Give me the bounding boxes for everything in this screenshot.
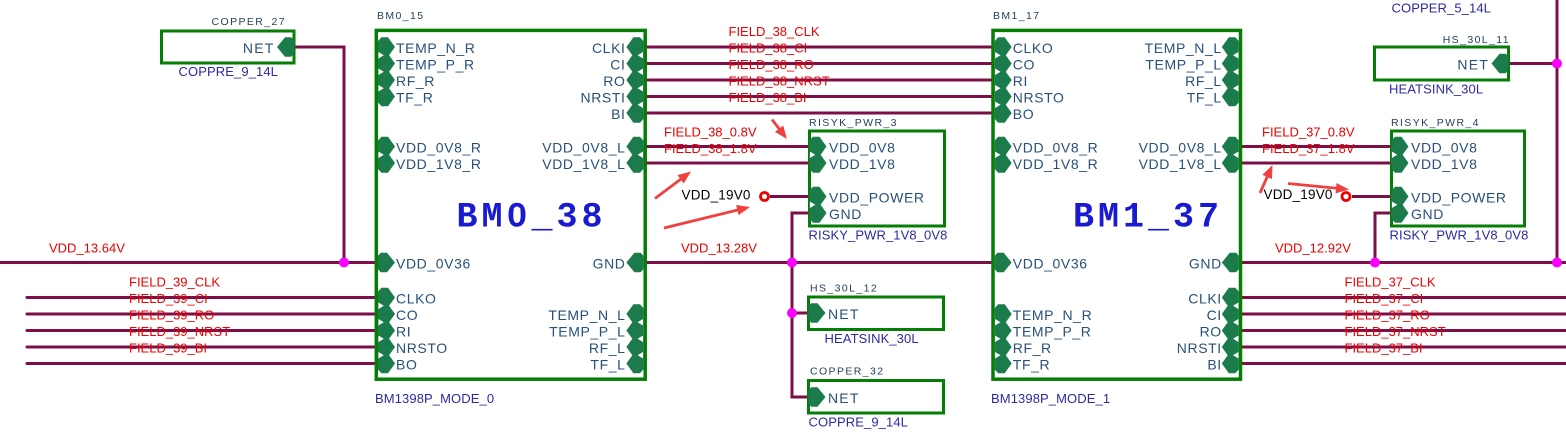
svg-text:FIELD_39_BI: FIELD_39_BI bbox=[129, 341, 207, 356]
svg-text:VDD_0V36: VDD_0V36 bbox=[1013, 256, 1088, 272]
svg-text:COPPER_27: COPPER_27 bbox=[212, 16, 286, 28]
svg-text:FIELD_39_CI: FIELD_39_CI bbox=[129, 291, 208, 306]
svg-text:NET: NET bbox=[243, 40, 275, 56]
svg-text:CLKI: CLKI bbox=[592, 40, 626, 56]
svg-text:TEMP_P_L: TEMP_P_L bbox=[1145, 57, 1221, 73]
svg-text:VDD_0V8_R: VDD_0V8_R bbox=[396, 140, 482, 156]
svg-text:RISYK_PWR_4: RISYK_PWR_4 bbox=[1391, 117, 1480, 129]
svg-text:COPPER_32: COPPER_32 bbox=[810, 366, 884, 378]
svg-text:TEMP_P_R: TEMP_P_R bbox=[396, 57, 475, 73]
svg-text:TF_L: TF_L bbox=[590, 357, 625, 373]
svg-text:NRSTO: NRSTO bbox=[396, 340, 448, 356]
svg-text:COPPRE_9_14L: COPPRE_9_14L bbox=[179, 64, 278, 79]
svg-text:VDD_0V8: VDD_0V8 bbox=[829, 140, 895, 156]
svg-text:GND: GND bbox=[1411, 206, 1444, 222]
svg-text:FIELD_39_NRST: FIELD_39_NRST bbox=[129, 324, 230, 339]
svg-text:CI: CI bbox=[610, 57, 625, 73]
svg-text:COPPER_5_14L: COPPER_5_14L bbox=[1392, 1, 1491, 16]
svg-text:TF_L: TF_L bbox=[1187, 90, 1222, 106]
svg-text:FIELD_38_BI: FIELD_38_BI bbox=[729, 90, 807, 105]
svg-text:VDD_0V8_L: VDD_0V8_L bbox=[542, 140, 625, 156]
svg-text:VDD_19V0: VDD_19V0 bbox=[682, 188, 751, 203]
svg-text:BM0_38: BM0_38 bbox=[457, 198, 607, 238]
svg-text:CO: CO bbox=[1013, 57, 1035, 73]
svg-text:VDD_1V8_L: VDD_1V8_L bbox=[1139, 156, 1222, 172]
svg-text:CO: CO bbox=[396, 307, 418, 323]
svg-text:BO: BO bbox=[396, 357, 417, 373]
svg-text:FIELD_38_1.8V: FIELD_38_1.8V bbox=[664, 141, 757, 156]
svg-text:GND: GND bbox=[1189, 256, 1222, 272]
svg-text:VDD_0V8_R: VDD_0V8_R bbox=[1013, 140, 1099, 156]
svg-text:FIELD_38_RO: FIELD_38_RO bbox=[729, 57, 814, 72]
svg-text:FIELD_37_NRST: FIELD_37_NRST bbox=[1345, 324, 1446, 339]
svg-text:CLKO: CLKO bbox=[1013, 40, 1054, 56]
svg-text:HEATSINK_30L: HEATSINK_30L bbox=[1389, 82, 1483, 97]
svg-text:FIELD_38_CLK: FIELD_38_CLK bbox=[729, 24, 820, 39]
svg-text:RISKY_PWR_1V8_0V8: RISKY_PWR_1V8_0V8 bbox=[809, 228, 948, 243]
svg-text:BO: BO bbox=[1013, 106, 1034, 122]
svg-text:TEMP_N_L: TEMP_N_L bbox=[548, 307, 625, 323]
svg-text:RF_L: RF_L bbox=[1185, 73, 1222, 89]
svg-text:VDD_13.64V: VDD_13.64V bbox=[49, 241, 125, 256]
svg-text:NET: NET bbox=[828, 390, 860, 406]
svg-text:FIELD_37_RO: FIELD_37_RO bbox=[1345, 308, 1430, 323]
svg-text:RISKY_PWR_1V8_0V8: RISKY_PWR_1V8_0V8 bbox=[1390, 228, 1529, 243]
svg-text:FIELD_39_CLK: FIELD_39_CLK bbox=[129, 275, 220, 290]
svg-text:HEATSINK_30L: HEATSINK_30L bbox=[825, 331, 919, 346]
svg-text:NRSTI: NRSTI bbox=[581, 90, 626, 106]
svg-text:VDD_12.92V: VDD_12.92V bbox=[1275, 241, 1351, 256]
svg-text:RISYK_PWR_3: RISYK_PWR_3 bbox=[809, 117, 898, 129]
svg-text:BM0_15: BM0_15 bbox=[377, 10, 425, 22]
svg-text:FIELD_37_1.8V: FIELD_37_1.8V bbox=[1262, 141, 1355, 156]
svg-text:RF_R: RF_R bbox=[396, 73, 435, 89]
svg-text:RI: RI bbox=[1013, 73, 1028, 89]
svg-text:VDD_1V8_R: VDD_1V8_R bbox=[396, 156, 482, 172]
svg-text:NRSTO: NRSTO bbox=[1013, 90, 1065, 106]
svg-text:VDD_0V36: VDD_0V36 bbox=[396, 256, 471, 272]
svg-text:VDD_1V8_R: VDD_1V8_R bbox=[1013, 156, 1099, 172]
svg-text:RF_R: RF_R bbox=[1013, 340, 1052, 356]
svg-text:RF_L: RF_L bbox=[589, 340, 626, 356]
svg-text:HS_30L_11: HS_30L_11 bbox=[1443, 34, 1510, 46]
svg-text:FIELD_37_0.8V: FIELD_37_0.8V bbox=[1262, 125, 1355, 140]
svg-text:BM1398P_MODE_0: BM1398P_MODE_0 bbox=[375, 391, 494, 406]
svg-text:BM1_37: BM1_37 bbox=[1073, 198, 1223, 238]
svg-text:FIELD_38_0.8V: FIELD_38_0.8V bbox=[664, 125, 757, 140]
svg-text:VDD_POWER: VDD_POWER bbox=[829, 190, 925, 206]
svg-text:VDD_1V8: VDD_1V8 bbox=[1411, 156, 1477, 172]
svg-text:VDD_0V8: VDD_0V8 bbox=[1411, 140, 1477, 156]
svg-text:GND: GND bbox=[593, 256, 626, 272]
svg-text:TEMP_N_R: TEMP_N_R bbox=[396, 40, 475, 56]
svg-text:FIELD_37_BI: FIELD_37_BI bbox=[1345, 341, 1423, 356]
svg-text:FIELD_37_CI: FIELD_37_CI bbox=[1345, 291, 1424, 306]
svg-text:VDD_19V0: VDD_19V0 bbox=[1264, 187, 1333, 202]
svg-text:CI: CI bbox=[1207, 307, 1222, 323]
svg-text:BI: BI bbox=[1207, 357, 1221, 373]
svg-text:FIELD_37_CLK: FIELD_37_CLK bbox=[1345, 275, 1436, 290]
svg-text:CLKO: CLKO bbox=[396, 291, 437, 307]
svg-text:RI: RI bbox=[396, 324, 411, 340]
svg-text:FIELD_38_NRST: FIELD_38_NRST bbox=[729, 74, 830, 89]
svg-text:VDD_1V8: VDD_1V8 bbox=[829, 156, 895, 172]
svg-text:COPPRE_9_14L: COPPRE_9_14L bbox=[809, 415, 908, 430]
svg-text:TEMP_P_L: TEMP_P_L bbox=[549, 324, 625, 340]
svg-text:NET: NET bbox=[828, 306, 860, 322]
svg-text:FIELD_39_RO: FIELD_39_RO bbox=[129, 308, 214, 323]
svg-text:TF_R: TF_R bbox=[396, 90, 433, 106]
svg-text:TEMP_N_R: TEMP_N_R bbox=[1013, 307, 1092, 323]
svg-text:BM1398P_MODE_1: BM1398P_MODE_1 bbox=[991, 391, 1110, 406]
svg-text:GND: GND bbox=[829, 206, 862, 222]
svg-text:NRSTI: NRSTI bbox=[1177, 340, 1222, 356]
svg-text:NET: NET bbox=[1457, 57, 1489, 73]
svg-text:BI: BI bbox=[611, 106, 625, 122]
svg-text:TEMP_P_R: TEMP_P_R bbox=[1013, 324, 1092, 340]
svg-text:VDD_0V8_L: VDD_0V8_L bbox=[1139, 140, 1222, 156]
svg-text:TF_R: TF_R bbox=[1013, 357, 1050, 373]
svg-text:TEMP_N_L: TEMP_N_L bbox=[1145, 40, 1222, 56]
svg-text:CLKI: CLKI bbox=[1188, 291, 1222, 307]
svg-text:BM1_17: BM1_17 bbox=[993, 10, 1041, 22]
svg-text:RO: RO bbox=[1200, 324, 1222, 340]
svg-text:VDD_1V8_L: VDD_1V8_L bbox=[542, 156, 625, 172]
svg-text:VDD_POWER: VDD_POWER bbox=[1411, 190, 1507, 206]
svg-text:RO: RO bbox=[603, 73, 625, 89]
svg-text:HS_30L_12: HS_30L_12 bbox=[810, 283, 878, 295]
svg-text:FIELD_38_CI: FIELD_38_CI bbox=[729, 41, 808, 56]
svg-text:VDD_13.28V: VDD_13.28V bbox=[681, 241, 757, 256]
